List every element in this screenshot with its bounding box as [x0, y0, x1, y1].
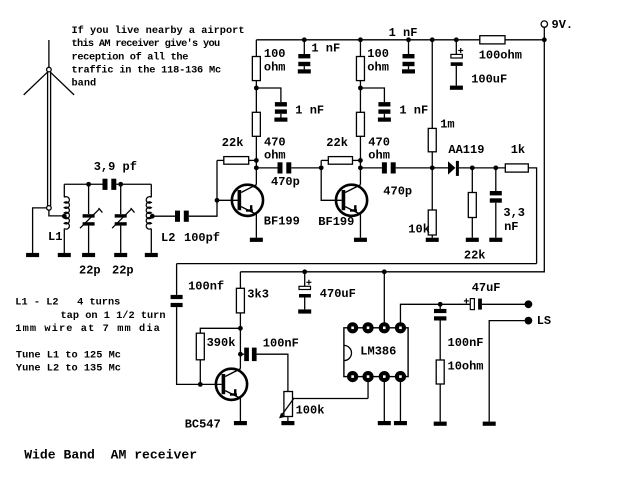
- transistor Q1 BF199: [232, 185, 300, 229]
- svg-text:3,9 pf: 3,9 pf: [94, 160, 137, 174]
- svg-text:22k: 22k: [222, 136, 244, 150]
- svg-text:1 nF: 1 nF: [389, 26, 418, 40]
- capacitor 1nF (rail bypass a): [298, 40, 340, 70]
- ground (L1): [58, 253, 71, 257]
- wire LM386 pin3 to pot wiper: [367, 377, 369, 399]
- wire BC547 base: [200, 383, 221, 385]
- svg-text:470: 470: [368, 136, 390, 150]
- ground (Q1 emitter): [250, 238, 263, 242]
- capacitor 3,9 pf: [94, 160, 137, 190]
- resistor 22k (Q2 base feedback): [321, 136, 360, 164]
- svg-text:100k: 100k: [296, 403, 325, 417]
- capacitor 470uF: [299, 272, 356, 310]
- resistor 100 ohm (stage1): [252, 40, 285, 81]
- node 390k 3k3: [238, 326, 243, 331]
- resistor 1m: [428, 117, 454, 151]
- wire diode to 1k: [459, 167, 505, 169]
- terminal 9V: [541, 18, 573, 32]
- ground (LS): [483, 422, 496, 426]
- svg-text:100uF: 100uF: [471, 73, 507, 87]
- svg-text:1 nF: 1 nF: [311, 42, 340, 56]
- svg-text:470: 470: [264, 136, 286, 150]
- svg-text:band: band: [72, 78, 97, 90]
- resistor 22k (Q1 base feedback): [217, 136, 256, 164]
- svg-text:10ohm: 10ohm: [448, 360, 484, 374]
- svg-text:1mm wire at 7 mm dia: 1mm wire at 7 mm dia: [15, 323, 161, 335]
- svg-text:LS: LS: [537, 314, 551, 328]
- ground (L2): [145, 253, 158, 257]
- svg-text:nF: nF: [504, 220, 518, 234]
- ground (LM386 pin4): [394, 421, 407, 425]
- ground (10k): [426, 238, 439, 242]
- node rail 100uF: [454, 37, 459, 42]
- svg-text:traffic in the 118-136 Mc: traffic in the 118-136 Mc: [72, 65, 221, 77]
- resistor 22k (detector load): [464, 168, 486, 263]
- svg-text:Yune L2 to 135 Mc: Yune L2 to 135 Mc: [16, 363, 121, 375]
- svg-text:100: 100: [367, 47, 389, 61]
- svg-text:L1: L1: [48, 230, 62, 244]
- svg-text:LM386: LM386: [360, 344, 396, 358]
- trimmer capacitor 22p #1: [79, 184, 102, 277]
- capacitor 100nf (audio coupling): [171, 280, 225, 308]
- terminal LS: [525, 314, 552, 328]
- ground (100uF): [450, 86, 463, 90]
- ground (22p #2): [114, 253, 127, 257]
- wire LM386 pin2 to ground: [383, 377, 385, 421]
- ground (22p #1): [82, 253, 95, 257]
- node L2 tap: [150, 214, 155, 219]
- resistor 10ohm: [436, 360, 483, 422]
- wire Q2 base network: [321, 160, 342, 200]
- IC U1 LM386: [344, 322, 408, 382]
- svg-text:390k: 390k: [207, 336, 236, 350]
- capacitor 470p (stage2): [360, 162, 432, 198]
- node Q2 collector 470p: [358, 165, 363, 170]
- svg-text:ohm: ohm: [264, 61, 286, 75]
- svg-text:47uF: 47uF: [472, 281, 501, 295]
- svg-text:BF199: BF199: [264, 215, 300, 229]
- node rail bypass a: [302, 37, 307, 42]
- node rail bypass b: [406, 37, 411, 42]
- supply rail 9V: [256, 39, 544, 41]
- resistor 10k: [408, 168, 436, 238]
- inductor L2: [146, 184, 175, 253]
- svg-text:Wide Band AM receiver: Wide Band AM receiver: [24, 448, 197, 463]
- svg-text:ohm: ohm: [367, 61, 389, 75]
- svg-text:1 nF: 1 nF: [295, 104, 324, 118]
- node Q2 input: [319, 165, 324, 170]
- inductor L1: [48, 184, 69, 253]
- svg-text:470uF: 470uF: [320, 287, 356, 301]
- svg-text:AA119: AA119: [448, 143, 484, 157]
- potentiometer 100k: [279, 392, 368, 419]
- ground (1nF stage1): [274, 118, 287, 122]
- wire Q1 collector: [255, 160, 257, 184]
- wire BC547 emitter: [239, 398, 241, 421]
- wire line A to 100nf: [176, 264, 178, 295]
- wire LM386 pin6 to line B: [383, 272, 385, 328]
- node Q1 collector 470p: [254, 165, 259, 170]
- svg-text:tap on 1 1/2 turn: tap on 1 1/2 turn: [61, 310, 166, 322]
- node rail 1m: [430, 37, 435, 42]
- svg-text:reception of all the: reception of all the: [72, 51, 189, 63]
- node tank left: [86, 182, 91, 187]
- wire Q1 emitter: [255, 214, 257, 237]
- wire 100nf to BC547 base: [177, 307, 201, 384]
- node rail 9V: [542, 37, 547, 42]
- wire tank rail left: [64, 183, 102, 185]
- node stage1 bias: [254, 86, 259, 91]
- wire signal line A: [177, 263, 537, 265]
- capacitor 1nF (stage2 bias): [378, 102, 428, 117]
- node Q1 collector 22k: [254, 158, 259, 163]
- resistor 100ohm (supply): [479, 36, 522, 63]
- svg-text:100nf: 100nf: [188, 280, 224, 294]
- svg-text:22k: 22k: [326, 136, 348, 150]
- capacitor 470p (stage1): [256, 162, 321, 189]
- ground (rail bypass a): [298, 69, 311, 73]
- resistor 470 ohm (stage1): [252, 81, 285, 163]
- node Q1 base: [215, 198, 220, 203]
- ground (100k pot): [281, 421, 294, 425]
- wire stage1 bias to 1nF: [256, 88, 281, 102]
- svg-text:100ohm: 100ohm: [479, 49, 522, 63]
- wire 1m to detector node: [431, 152, 433, 168]
- svg-text:22p: 22p: [79, 263, 101, 277]
- resistor 470 ohm (stage2): [356, 81, 389, 163]
- resistor 3k3: [236, 272, 269, 313]
- svg-text:470p: 470p: [383, 184, 412, 198]
- node line B LM386: [382, 269, 387, 274]
- svg-text:3,3: 3,3: [503, 206, 525, 220]
- svg-text:BF199: BF199: [318, 215, 354, 229]
- wire pot to ground: [287, 417, 289, 422]
- wire LM386 pin4 to ground: [399, 377, 401, 421]
- wire Q2 collector: [359, 160, 361, 184]
- svg-text:this AM receiver give's you: this AM receiver give's you: [72, 38, 220, 50]
- svg-text:1m: 1m: [440, 117, 454, 131]
- ground (antenna): [26, 253, 39, 257]
- wire stage2 bias to 1nF: [360, 88, 384, 102]
- node rail stage2: [358, 37, 363, 42]
- svg-text:L2: L2: [161, 231, 175, 245]
- ground (10ohm): [434, 422, 447, 426]
- capacitor 100pf: [175, 211, 220, 245]
- terminal output: [525, 300, 533, 308]
- svg-text:L1 - L2 4 turns: L1 - L2 4 turns: [15, 297, 120, 309]
- wire detector node to diode: [432, 167, 448, 169]
- wire LS to ground: [489, 321, 524, 422]
- svg-text:22p: 22p: [112, 263, 134, 277]
- ground (LM386 pin2): [378, 421, 391, 425]
- capacitor 100nF (zobel): [434, 304, 484, 360]
- ground (3.3nF): [489, 238, 502, 242]
- svg-text:10k: 10k: [408, 223, 430, 237]
- node L1 tap: [62, 214, 67, 219]
- resistor 1k: [505, 143, 528, 172]
- node line B 470uF: [302, 269, 307, 274]
- ground (470uF): [298, 309, 311, 313]
- capacitor 47uF: [440, 281, 525, 310]
- antenna: [24, 40, 74, 210]
- transistor Q3 BC547: [185, 369, 247, 432]
- ground (1nF stage2): [378, 118, 391, 122]
- node 100nF tap: [238, 352, 243, 357]
- node detector 22k: [470, 165, 475, 170]
- svg-text:22k: 22k: [464, 249, 486, 263]
- ground (rail bypass b): [402, 69, 415, 73]
- wire 9V to rail: [543, 27, 545, 40]
- capacitor 3,3 nF: [490, 168, 525, 238]
- wire 1k to line A: [528, 168, 536, 264]
- svg-text:3k3: 3k3: [247, 288, 269, 302]
- node Q2 collector 22k: [358, 158, 363, 163]
- node tank right: [118, 182, 123, 187]
- capacitor 100uF: [451, 40, 508, 87]
- svg-text:100nF: 100nF: [263, 336, 299, 350]
- node detector in: [430, 165, 435, 170]
- wire 100pf to Q1 base column: [189, 160, 217, 216]
- capacitor 1nF (rail bypass b): [389, 26, 418, 69]
- capacitor 1nF (stage1 bias): [275, 102, 324, 117]
- svg-text:If you live nearby a airport: If you live nearby a airport: [72, 25, 245, 37]
- svg-text:1 nF: 1 nF: [399, 104, 428, 118]
- node detector 3.3nF: [493, 165, 498, 170]
- node stage2 bias: [358, 86, 363, 91]
- svg-text:9V.: 9V.: [552, 18, 574, 32]
- capacitor 100nF (to volume pot): [240, 336, 298, 391]
- wire tank rail right: [116, 183, 151, 185]
- ground (BC547 emitter): [234, 421, 247, 425]
- wire antenna to L1 tap: [49, 210, 64, 216]
- svg-text:BC547: BC547: [185, 418, 221, 432]
- svg-text:100: 100: [264, 47, 286, 61]
- ground (Q2 emitter): [354, 238, 367, 242]
- wire 3k3 to BC547 collector: [239, 313, 241, 369]
- node BC547 base: [198, 382, 203, 387]
- svg-text:100pf: 100pf: [184, 231, 220, 245]
- wire L2 tap to 100pf: [152, 215, 175, 217]
- wire LM386 pin5 to output node: [400, 304, 440, 328]
- svg-text:ohm: ohm: [264, 149, 286, 163]
- wire Q1 base: [217, 199, 238, 201]
- transistor Q2 BF199: [318, 185, 367, 229]
- wire rail to 1m: [431, 40, 433, 129]
- node output: [438, 302, 443, 307]
- wire supply line B: [240, 40, 544, 272]
- wire Q2 emitter: [359, 214, 361, 237]
- svg-text:1k: 1k: [511, 143, 525, 157]
- svg-text:ohm: ohm: [368, 149, 390, 163]
- resistor 390k: [196, 328, 240, 384]
- wire antenna to ground: [33, 208, 47, 253]
- trimmer capacitor 22p #2: [112, 184, 135, 277]
- svg-text:Tune L1 to 125 Mc: Tune L1 to 125 Mc: [16, 349, 121, 361]
- svg-text:100nF: 100nF: [448, 336, 484, 350]
- ground (22k detector): [466, 238, 479, 242]
- resistor 100 ohm (stage2): [356, 40, 388, 81]
- diode AA119: [448, 143, 484, 176]
- svg-text:470p: 470p: [271, 175, 300, 189]
